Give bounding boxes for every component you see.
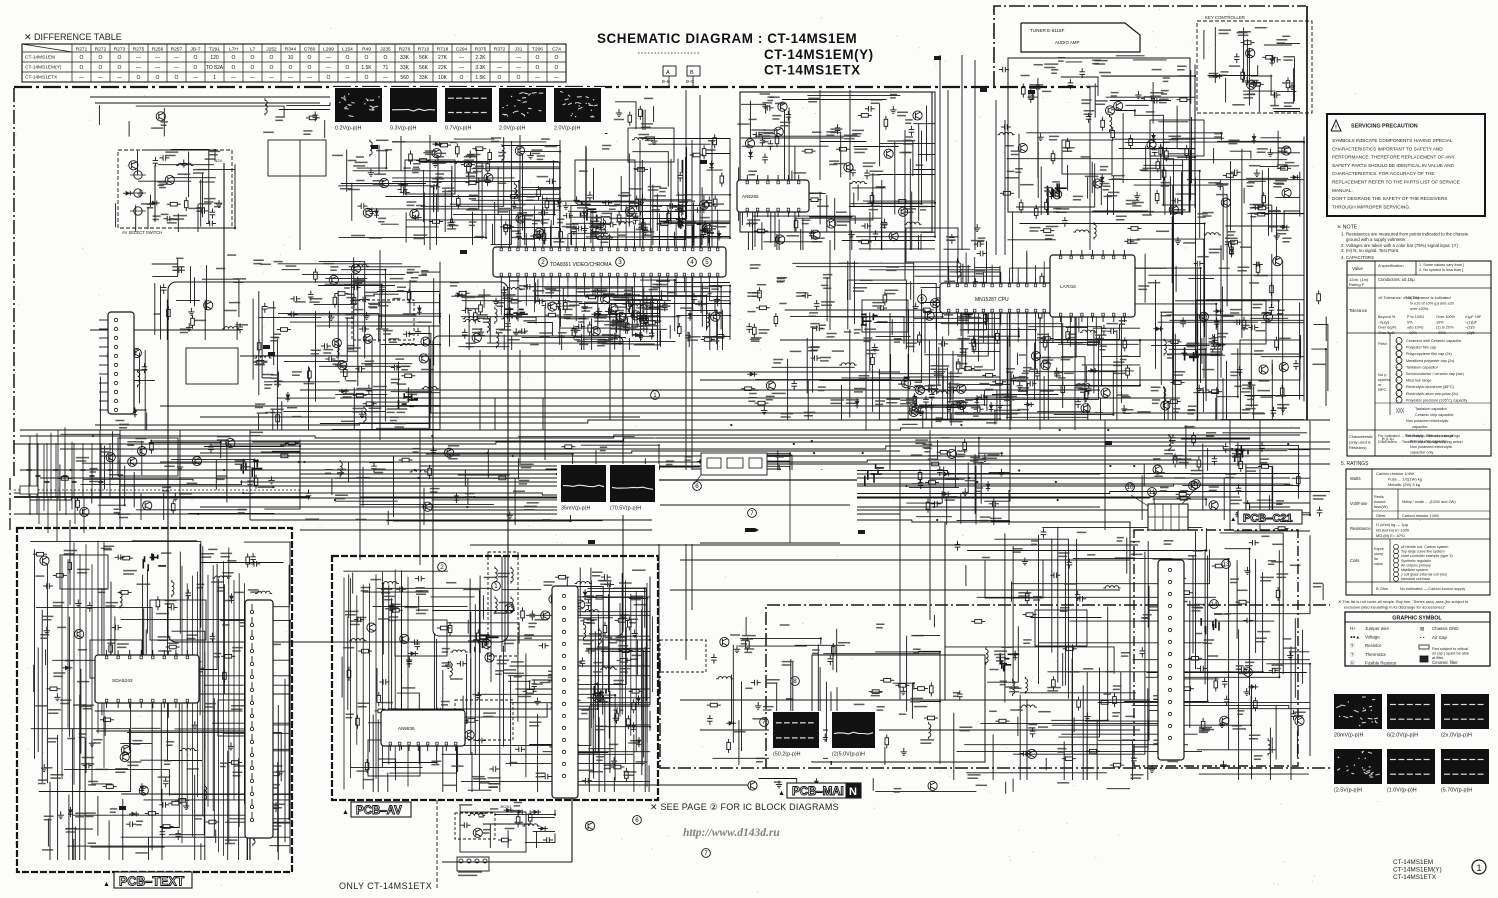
capacitor C158 <box>325 358 329 360</box>
label <box>343 394 355 397</box>
label <box>309 299 322 302</box>
pad <box>700 160 707 164</box>
label <box>1262 312 1271 314</box>
transistor Q216 <box>515 146 524 155</box>
label <box>1243 95 1255 98</box>
wire <box>701 187 703 245</box>
wire <box>874 321 987 323</box>
capacitor C326 <box>1027 96 1031 98</box>
wire <box>700 379 1260 381</box>
svg-text:6: 6 <box>635 817 639 824</box>
resistor R467 <box>973 339 975 343</box>
wire <box>819 379 921 382</box>
wire <box>942 336 944 420</box>
label <box>332 361 343 364</box>
transistor Q127 <box>338 361 347 370</box>
resistor R551 <box>277 455 281 457</box>
capacitor C144 <box>290 298 294 300</box>
wire <box>684 167 730 195</box>
wire <box>365 405 441 407</box>
svg-text:(only used &: (only used & <box>1349 440 1371 445</box>
wire <box>1026 251 1028 396</box>
ground <box>1127 272 1129 276</box>
svg-text:−0μ(μ): −0μ(μ) <box>1378 320 1390 324</box>
label <box>353 309 363 311</box>
wire <box>921 289 923 382</box>
wire <box>641 160 643 219</box>
transistor Q534 <box>132 348 141 357</box>
pad <box>588 540 595 544</box>
label <box>397 383 406 385</box>
ground <box>915 303 917 307</box>
wire <box>924 354 967 356</box>
wire <box>1084 340 1140 345</box>
wire <box>202 173 204 218</box>
transistor Q113 <box>129 161 138 170</box>
wire <box>878 369 880 420</box>
wire <box>376 326 429 429</box>
label <box>527 197 535 200</box>
wire <box>752 216 855 224</box>
label <box>1221 72 1229 75</box>
capacitor C223 <box>708 197 710 201</box>
junction <box>1309 514 1311 516</box>
junction <box>1018 335 1020 337</box>
wire <box>1197 313 1199 420</box>
wire <box>613 290 662 299</box>
label <box>403 167 411 169</box>
label <box>980 517 991 520</box>
label <box>1238 267 1250 270</box>
diode D583 <box>941 493 951 495</box>
resistor R359 <box>626 320 628 324</box>
label <box>421 369 434 371</box>
wire <box>472 212 474 245</box>
label <box>621 193 630 196</box>
svg-text:TDA8361 VIDEO/CHROMA: TDA8361 VIDEO/CHROMA <box>550 262 612 268</box>
wire <box>258 414 260 430</box>
svg-text:Metal / oxide ... (1/2W and 2W: Metal / oxide ... (1/2W and 2W) <box>1402 499 1456 504</box>
transistor Q526 <box>1259 365 1268 374</box>
label <box>390 278 404 280</box>
wire <box>938 347 940 385</box>
wire <box>1223 479 1225 521</box>
svg-text:R272: R272 <box>95 47 107 53</box>
svg-text:Beyond %: Beyond % <box>1378 315 1396 319</box>
label <box>826 132 836 135</box>
label <box>491 138 501 141</box>
transistor Q143 <box>329 275 338 284</box>
wire <box>471 169 560 181</box>
wire <box>673 148 730 238</box>
capacitor C408 <box>571 329 575 331</box>
svg-text:1: 1 <box>494 583 498 590</box>
svg-text:N: N <box>849 786 857 798</box>
wire <box>419 161 559 163</box>
label <box>378 302 391 305</box>
junction <box>729 194 731 196</box>
label <box>921 231 935 233</box>
label <box>928 456 941 459</box>
wire <box>761 222 763 250</box>
capacitor C147 <box>368 385 370 389</box>
diode D561 <box>697 461 707 463</box>
wire <box>1229 420 1231 530</box>
wire <box>408 334 431 414</box>
label <box>119 514 130 517</box>
wire <box>1172 324 1174 420</box>
svg-text:For Indicated ... Part Rating: For Indicated ... Part Rating - Below in… <box>1378 434 1460 438</box>
wire <box>300 473 1100 475</box>
resistor R208 <box>487 160 489 164</box>
wire <box>689 496 691 521</box>
wire <box>20 467 700 470</box>
svg-text:Jumper wire: Jumper wire <box>1365 626 1389 631</box>
resistor R303 <box>1163 167 1165 171</box>
wire <box>1026 133 1221 141</box>
svg-text:O: O <box>118 65 122 71</box>
wire <box>1153 498 1155 513</box>
coil L404 <box>505 288 522 290</box>
label <box>956 363 968 365</box>
label <box>1229 140 1240 143</box>
resistor R184 <box>546 197 548 201</box>
wire <box>1007 337 1009 397</box>
diode D343 <box>1253 134 1255 144</box>
junction <box>559 187 561 189</box>
wire <box>906 491 942 503</box>
label <box>759 133 773 136</box>
label <box>750 265 761 268</box>
label <box>715 311 723 313</box>
wire <box>1164 387 1166 420</box>
label <box>574 336 582 339</box>
label <box>356 156 364 158</box>
wire <box>204 300 206 340</box>
wire <box>739 455 790 457</box>
transistor Q262 <box>757 187 766 196</box>
svg-text:kΩ (kohm) k= 1000: kΩ (kohm) k= 1000 <box>1376 528 1410 533</box>
wire <box>503 335 505 350</box>
resistor R104 <box>167 203 171 205</box>
label <box>469 154 481 156</box>
label <box>1277 405 1289 408</box>
resistor R304 <box>1160 144 1162 148</box>
resistor R425 <box>872 354 874 358</box>
svg-text:0.2V(p-p)H: 0.2V(p-p)H <box>335 126 361 132</box>
wire <box>421 137 504 206</box>
wire <box>913 318 1000 335</box>
label <box>939 300 947 303</box>
wire <box>316 325 438 327</box>
capacitor C414 <box>802 294 806 296</box>
coil L130 <box>352 264 369 266</box>
label <box>680 509 690 511</box>
wire <box>30 498 1150 500</box>
wire <box>747 232 749 250</box>
label <box>1111 176 1124 179</box>
wire <box>919 404 987 406</box>
wire <box>448 191 517 193</box>
wire <box>160 285 162 339</box>
diode D317 <box>1153 133 1155 143</box>
coil L164 <box>364 406 366 423</box>
capacitor C603 <box>1261 442 1263 446</box>
wire <box>319 261 365 358</box>
svg-text:PERFORMANCE. THEREFORE REP: PERFORMANCE. THEREFORE REPLACEMENT OF AN… <box>1332 155 1456 160</box>
coil L454 <box>1080 330 1097 332</box>
wire <box>1277 42 1300 44</box>
wire <box>802 218 804 250</box>
capacitor C258 <box>753 134 757 136</box>
wire <box>983 395 1010 397</box>
resistor R305 <box>1112 127 1114 131</box>
resistor R240 <box>642 219 644 223</box>
label <box>1081 100 1091 103</box>
wire <box>913 123 935 125</box>
label <box>635 199 646 202</box>
wire <box>302 273 405 275</box>
wire <box>300 389 1100 391</box>
wire <box>842 240 935 242</box>
wire <box>1155 280 1157 369</box>
resistor R362 <box>564 299 566 303</box>
svg-text:5%: 5% <box>1407 320 1413 324</box>
junction <box>716 310 718 312</box>
pad <box>371 145 378 149</box>
pcb-main lower chain <box>766 767 1330 769</box>
wire <box>879 104 881 167</box>
wire <box>511 336 513 350</box>
transistor Q263 <box>827 219 836 228</box>
wire <box>100 455 1250 457</box>
resistor R578 <box>919 469 921 473</box>
svg-text:—: — <box>136 55 141 61</box>
svg-text:JK201: JK201 <box>500 804 512 809</box>
label <box>959 292 966 295</box>
resistor R402 <box>678 323 680 327</box>
junction <box>999 418 1001 420</box>
label <box>450 283 459 286</box>
label <box>1113 372 1125 374</box>
capacitor C396 <box>687 332 689 336</box>
label <box>748 398 757 401</box>
label <box>1005 145 1014 147</box>
svg-text:CT-14MS1EM: CT-14MS1EM <box>25 55 55 61</box>
svg-text:0.3V(p-p)H: 0.3V(p-p)H <box>390 126 416 132</box>
wire <box>430 412 1240 414</box>
junction <box>820 469 822 471</box>
label <box>1240 246 1251 248</box>
wire <box>881 180 883 250</box>
wire <box>796 217 882 219</box>
svg-text:exclusive (also insulating) in: exclusive (also insulating) in its disch… <box>1344 605 1446 610</box>
svg-text:—: — <box>174 65 179 71</box>
wire <box>552 160 554 225</box>
wire <box>1004 120 1006 255</box>
capacitor C356 <box>693 293 695 297</box>
capacitor C367 <box>542 305 546 307</box>
svg-text:L154: L154 <box>342 47 353 53</box>
diode D166 <box>287 392 289 402</box>
ground <box>139 189 141 193</box>
label <box>176 257 183 259</box>
wire <box>444 189 446 232</box>
svg-text:Polypropylene film cap (2x): Polypropylene film cap (2x) <box>1406 352 1453 356</box>
top chain boundary <box>14 86 1090 88</box>
wire <box>98 466 125 505</box>
wire <box>1269 152 1300 154</box>
wire <box>1034 343 1036 401</box>
capacitor C435 <box>957 405 961 407</box>
wire <box>226 442 228 503</box>
label <box>353 165 365 167</box>
svg-text:Carbon resistor 1/4W: Carbon resistor 1/4W <box>1376 471 1414 476</box>
wire <box>693 469 781 481</box>
svg-text:R344: R344 <box>285 47 297 53</box>
ground <box>1000 469 1002 473</box>
svg-text:CT-14MS1ETX: CT-14MS1ETX <box>25 75 58 81</box>
label <box>592 224 605 227</box>
capacitor C564 <box>697 487 701 489</box>
wire <box>700 471 1300 474</box>
resistor R535 <box>172 500 174 504</box>
wire <box>158 164 214 166</box>
resistor R488 <box>1046 199 1048 203</box>
wire <box>1110 100 1171 102</box>
pad <box>268 352 275 356</box>
wire <box>1299 302 1301 399</box>
label <box>1050 294 1059 296</box>
resistor R513 <box>1041 273 1043 277</box>
wire <box>95 102 320 104</box>
wire <box>641 295 730 297</box>
svg-text:—: — <box>79 75 84 81</box>
ground <box>450 219 452 223</box>
label <box>1064 372 1074 374</box>
label <box>1007 170 1015 172</box>
coil L415 <box>839 363 856 365</box>
ground <box>495 298 497 302</box>
coil L225 <box>591 220 593 237</box>
svg-text:value: value <box>1374 562 1383 566</box>
capacitor C474 <box>1036 370 1038 374</box>
resistor R581 <box>927 499 929 503</box>
label <box>1156 230 1169 232</box>
wire <box>755 135 860 137</box>
label <box>1285 162 1294 164</box>
label <box>340 188 352 190</box>
label <box>1100 167 1108 170</box>
ground <box>434 160 436 164</box>
label <box>255 404 265 407</box>
wire <box>197 164 235 228</box>
svg-text:Field: Field <box>1378 341 1387 346</box>
transistor Q549 <box>143 501 152 510</box>
transistor Q160 <box>419 354 428 363</box>
label <box>762 138 770 141</box>
wire <box>628 153 630 226</box>
svg-text:http://www.d143d.ru: http://www.d143d.ru <box>683 827 780 839</box>
label <box>1100 183 1110 185</box>
label <box>1184 426 1194 428</box>
wire <box>272 450 300 452</box>
label <box>263 375 274 378</box>
resistor R274 <box>885 116 887 120</box>
wire <box>946 498 948 525</box>
label <box>330 267 338 270</box>
svg-text:✕ This list is not cover-all s: ✕ This list is not cover-all simple. Buy… <box>1338 599 1468 604</box>
label <box>998 394 1012 397</box>
wire <box>669 325 671 339</box>
label <box>1250 205 1262 208</box>
wire <box>899 470 901 700</box>
label <box>345 315 356 318</box>
svg-text:Carbon resistor 1/4W: Carbon resistor 1/4W <box>1402 513 1439 518</box>
transistor Q190 <box>410 210 419 219</box>
wire <box>956 261 958 274</box>
ground <box>1256 169 1258 173</box>
svg-text:7: 7 <box>762 719 766 726</box>
wire <box>790 317 904 344</box>
label <box>1021 75 1030 77</box>
svg-text:3.3K: 3.3K <box>475 65 486 71</box>
svg-text:—: — <box>98 75 103 81</box>
svg-text:O: O <box>156 75 160 81</box>
svg-text:P to 100Ω: P to 100Ω <box>1407 315 1424 319</box>
label <box>539 333 552 336</box>
wire <box>487 342 623 344</box>
label <box>716 223 729 226</box>
label <box>890 95 897 98</box>
label <box>535 220 544 222</box>
label <box>373 181 385 184</box>
label <box>1081 156 1091 158</box>
capacitor C115 <box>159 157 163 159</box>
svg-text:Air Gap: Air Gap <box>1432 635 1447 640</box>
label <box>369 304 379 307</box>
wire <box>936 303 938 395</box>
label <box>418 321 431 323</box>
junction <box>439 344 441 346</box>
junction <box>729 285 731 287</box>
dense node <box>865 464 884 486</box>
ground <box>576 196 578 200</box>
svg-text:120: 120 <box>210 55 219 61</box>
wire <box>492 224 494 245</box>
wire <box>202 279 239 317</box>
label <box>373 387 387 390</box>
label <box>469 195 478 198</box>
wire <box>359 430 361 560</box>
label <box>1045 235 1054 238</box>
wire <box>250 520 1050 522</box>
wire <box>700 729 1140 731</box>
wire <box>527 323 552 336</box>
wire <box>640 280 675 331</box>
wire <box>937 440 939 460</box>
label <box>1058 58 1065 61</box>
wire <box>569 216 611 218</box>
transistor Q599 <box>1153 465 1162 474</box>
label <box>818 387 826 390</box>
ground <box>716 296 718 300</box>
wire <box>680 699 1150 701</box>
wire <box>1158 121 1188 123</box>
wire <box>1082 364 1140 366</box>
label <box>709 338 722 341</box>
capacitor C156 <box>403 333 407 335</box>
